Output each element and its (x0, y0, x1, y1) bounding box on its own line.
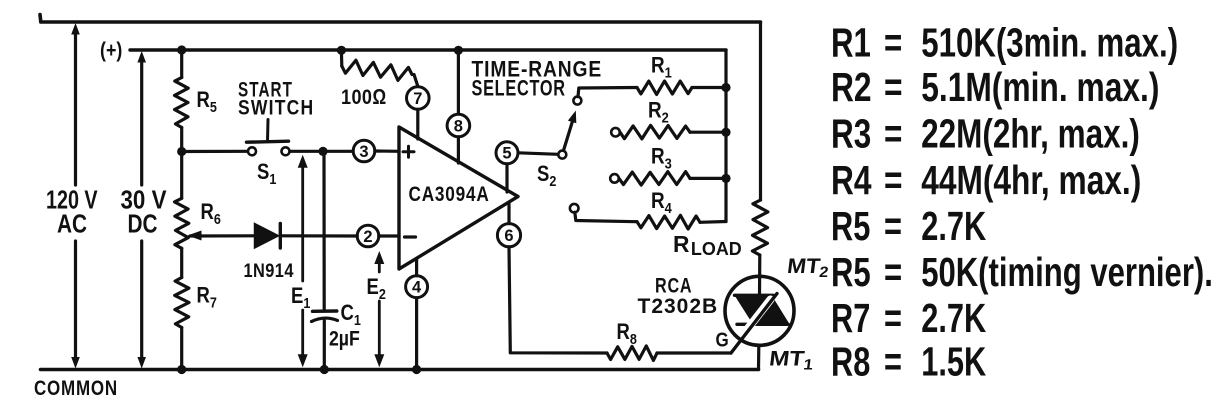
svg-text:7: 7 (413, 90, 422, 108)
source 120V AC arrow line (lower) (74, 241, 77, 361)
resistor R2 (620, 125, 690, 139)
resistor R6 (potentiometer) (175, 198, 189, 248)
wire pin6 down to R8 (509, 247, 607, 353)
junction dot pin4/common (412, 365, 421, 374)
switch S2 selected contact (573, 97, 581, 105)
terminal R2 (611, 128, 620, 137)
svg-text:COMMON: COMMON (34, 376, 118, 400)
node E2 line upper (378, 260, 381, 272)
svg-text:6: 6 (504, 227, 513, 245)
junction dot pin8 tap (454, 46, 463, 55)
wire rail to R5 (180, 50, 183, 78)
capacitor C1 top plate (313, 309, 337, 313)
wire R4 to bank (700, 220, 726, 224)
terminal R3 (610, 174, 619, 183)
diode D1 1N914 triangle (255, 224, 279, 249)
wire R2 to bank (690, 131, 726, 134)
resistor R1 (637, 81, 692, 95)
resistor R4 (637, 215, 700, 229)
junction dot R3/bank (721, 174, 730, 183)
wire right vertical from top rail to R_LOAD (759, 22, 762, 200)
triac bottom bar (737, 323, 788, 326)
wire pin4 to bottom rail (415, 298, 418, 370)
wire bottom rail (COMMON) (41, 368, 759, 372)
wire triac MT1 lead (757, 346, 760, 370)
wire selector-bank right vertical (724, 50, 727, 222)
svg-text:100Ω: 100Ω (341, 86, 387, 110)
node E2 line lower (378, 301, 381, 358)
svg-text:R5=50K(timing vernier).: R5=50K(timing vernier). (831, 249, 1213, 295)
arrowhead 120V AC up (71, 23, 80, 35)
svg-text:8: 8 (454, 117, 463, 135)
wire S1 to pin 3 (290, 150, 354, 153)
node E1 line lower (301, 310, 304, 358)
svg-text:1N914: 1N914 (244, 260, 294, 282)
terminal R4 (S2 off position) (570, 204, 579, 213)
svg-text:G: G (716, 328, 729, 351)
wire C1 top (322, 151, 325, 311)
junction dot C1/common (320, 365, 329, 374)
wire R5 to R6 (180, 128, 183, 199)
capacitor C1 bottom plate (312, 318, 338, 321)
resistor R3 (619, 172, 690, 186)
node E1 arrow up (298, 155, 308, 168)
resistor 100ohm (342, 60, 412, 80)
svg-text:T2302B: T2302B (638, 295, 719, 318)
wire pin2 to op-amp (379, 234, 399, 237)
wire R3 to bank (690, 177, 726, 180)
op-amp - input mark (405, 235, 416, 238)
resistor R7 (175, 278, 189, 328)
pin circle 6 (497, 224, 520, 247)
junction dot R7/common (177, 365, 186, 374)
arrowhead 30V DC down (137, 357, 146, 369)
op-amp U1 CA3094A body (399, 127, 518, 269)
junction dot 100ohm tap (337, 46, 346, 55)
wire R6 wiper to diode (190, 234, 255, 237)
wire R4 terminal to R4 (575, 212, 637, 222)
resistor R5 (175, 78, 189, 128)
wire pin3 to op-amp (375, 149, 399, 153)
svg-text:RCA: RCA (655, 273, 692, 297)
switch S1 left contact (248, 147, 256, 155)
pin circle 4 (406, 276, 428, 298)
svg-text:CA3094A: CA3094A (409, 182, 490, 206)
svg-text:2µF: 2µF (329, 327, 360, 351)
svg-text:5: 5 (502, 145, 511, 163)
wire (+) 30V rail (130, 48, 726, 51)
wire R1 to bank (692, 86, 726, 89)
svg-text:SELECTOR: SELECTOR (472, 76, 566, 101)
node E2 arrow down (374, 354, 384, 367)
wire top rail (120V AC supply line) (40, 15, 761, 23)
triac upper-left triangle (736, 296, 771, 323)
diode D1 cathode bar (279, 224, 282, 249)
wire diode to pin2 (280, 234, 357, 237)
wire S2 top contact to R1 (578, 88, 637, 97)
wire R7 to bottom rail (180, 328, 183, 370)
wire R_LOAD to triac MT2 (758, 255, 761, 296)
pin circle 5 (496, 142, 518, 164)
switch S1 right contact (282, 147, 290, 155)
svg-text:DC: DC (128, 209, 158, 238)
pin circle 2 (357, 225, 379, 247)
junction dot R1/bank (721, 83, 730, 92)
node E1 arrow down (298, 354, 308, 367)
wire R8 to gate (657, 351, 731, 354)
node E1 line upper (301, 165, 304, 281)
pin circle 7 (407, 87, 430, 110)
junction dot rail2/R5 (177, 45, 186, 54)
triac Q1 body circle (725, 276, 794, 345)
switch S1 actuator tick (266, 120, 270, 142)
arrowhead 30V DC up (137, 51, 146, 63)
source 30V DC arrow line (lower) (140, 241, 143, 361)
wire pin4 to op-amp bottom edge (415, 259, 418, 276)
wire pin5 to S2 pivot (518, 153, 558, 155)
svg-text:(+): (+) (100, 39, 122, 63)
wire 100ohm to pin7 (414, 75, 418, 87)
wire pin8 to op-amp top edge (457, 137, 460, 163)
arrowhead 120V AC down (71, 357, 80, 369)
op-amp + input mark (403, 146, 414, 157)
wire rail to 100ohm (340, 50, 344, 66)
wire pin6 to op-amp bottom edge (507, 204, 510, 224)
triac gate diagonal separator (746, 300, 771, 332)
triac top bar (735, 294, 774, 297)
wire R6 to R7 (180, 248, 183, 277)
svg-text:2: 2 (363, 228, 372, 246)
wire pin7 to op-amp top edge (416, 109, 419, 139)
resistor R8 (607, 346, 657, 361)
pin circle 3 (353, 140, 375, 162)
wire C1 bottom (323, 321, 326, 370)
svg-text:4: 4 (412, 279, 422, 297)
junction dot R2/bank (721, 128, 730, 137)
potentiometer wiper arrowhead (188, 231, 202, 241)
switch S1 bar (247, 141, 289, 142)
source 30V DC arrow line (upper) (140, 58, 143, 185)
node E2 arrow up (374, 251, 384, 264)
wire rail to pin8 (457, 50, 460, 114)
resistor R_LOAD (752, 200, 768, 255)
switch S2 pivot contact (558, 151, 566, 159)
wire pin5 to op-amp hypotenuse (505, 164, 508, 192)
wire tap to S1 (182, 150, 248, 153)
svg-text:3: 3 (359, 143, 368, 161)
source 120V AC measurement arrow line (upper) (74, 30, 77, 185)
wire gate diagonal (731, 294, 777, 354)
triac lower-right triangle (755, 296, 789, 323)
switch S2 arm (564, 117, 574, 151)
junction dot C1 tap (318, 147, 327, 156)
svg-text:SWITCH: SWITCH (238, 96, 314, 120)
pin circle 8 (447, 114, 470, 137)
svg-text:AC: AC (57, 209, 87, 238)
junction dot R5/R6 switch tap (177, 147, 186, 156)
switch S2 arm arrowhead (568, 111, 576, 124)
